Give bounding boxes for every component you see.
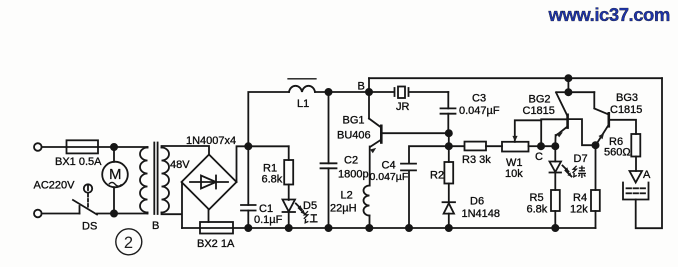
resistor R6 — [631, 134, 640, 157]
svg-text:C1815: C1815 — [610, 104, 642, 116]
wire cup to right edge — [636, 78, 662, 228]
capacitor C3 — [447, 92, 449, 108]
capacitor C2 — [328, 92, 330, 163]
fuse BX2 — [200, 222, 233, 234]
motor M — [113, 147, 115, 162]
svg-text:D5: D5 — [303, 200, 317, 212]
inductor L1 — [289, 86, 315, 92]
transformer core — [153, 143, 155, 215]
svg-text:BG1: BG1 — [343, 115, 365, 127]
wire B riser to top rail — [368, 78, 370, 92]
svg-text:B: B — [358, 81, 365, 93]
svg-text:6.8k: 6.8k — [527, 203, 548, 215]
node B — [366, 89, 372, 95]
svg-text:C1815: C1815 — [523, 105, 555, 117]
wire bridge bottom — [208, 210, 210, 223]
wire riser to L1 — [248, 92, 289, 146]
svg-text:D6: D6 — [470, 196, 484, 208]
wire AC top — [42, 146, 67, 148]
wire secondary bottom to bridge — [162, 183, 183, 229]
node junction top-left — [111, 144, 117, 150]
node junction bottom-left — [111, 210, 117, 216]
svg-text:1N4148: 1N4148 — [462, 208, 501, 220]
svg-text:BX2 1A: BX2 1A — [197, 238, 235, 250]
node DC+ — [245, 143, 251, 149]
node L1-C2 — [325, 89, 331, 95]
fuse BX1 — [67, 140, 99, 153]
svg-text:22µH: 22µH — [330, 203, 357, 215]
transformer B primary — [140, 148, 147, 213]
resistor R4 — [595, 145, 597, 190]
transistor BG3 — [568, 91, 594, 93]
svg-text:www.ic37.com: www.ic37.com — [548, 4, 670, 25]
terminal top-left — [34, 143, 42, 151]
wire top rail — [369, 77, 662, 79]
svg-text:2: 2 — [124, 234, 133, 252]
inductor L2 — [364, 186, 370, 216]
label red char — [304, 211, 318, 223]
svg-text:6.8k: 6.8k — [262, 174, 283, 186]
svg-text:10k: 10k — [505, 168, 523, 180]
terminal bottom-left — [34, 210, 42, 218]
svg-text:M: M — [109, 166, 122, 183]
svg-text:1800p: 1800p — [338, 169, 369, 181]
potentiometer W1 — [502, 142, 529, 152]
svg-text:R2: R2 — [430, 170, 444, 182]
resistor R3 — [449, 145, 464, 147]
wire secondary top to bridge — [162, 146, 210, 155]
wire BG2 base to R4 node — [569, 119, 596, 145]
bridge diode — [190, 181, 228, 183]
svg-text:B: B — [152, 220, 159, 232]
transistor BG2 — [566, 115, 569, 128]
svg-text:48V: 48V — [170, 159, 190, 171]
capacitor C4 — [409, 146, 449, 163]
resistor R1 — [248, 145, 288, 147]
svg-text:BU406: BU406 — [337, 130, 371, 142]
probe arrow A — [630, 171, 643, 183]
svg-text:L1: L1 — [297, 98, 309, 110]
svg-text:0.047µF: 0.047µF — [459, 105, 500, 117]
resistor R5 — [554, 173, 556, 191]
svg-text:JR: JR — [396, 101, 410, 113]
svg-text:C3: C3 — [472, 93, 486, 105]
svg-text:AC220V: AC220V — [34, 179, 76, 191]
wire BG3 base to R6 — [610, 120, 636, 134]
transistor BG1 — [368, 92, 370, 119]
svg-text:BG2: BG2 — [529, 94, 551, 106]
diode D6 — [443, 201, 456, 203]
svg-text:L2: L2 — [341, 190, 353, 202]
resistor R2 — [448, 146, 450, 162]
svg-text:1N4007x4: 1N4007x4 — [186, 135, 236, 147]
wire BG2 collector riser — [567, 78, 569, 92]
probe cup — [623, 183, 649, 200]
transducer JR — [369, 91, 393, 93]
wire bridge + output — [237, 146, 249, 182]
thermostat bulb — [84, 184, 92, 192]
svg-text:560Ω: 560Ω — [604, 147, 631, 159]
svg-text:C2: C2 — [344, 155, 358, 167]
capacitor C1 — [247, 146, 249, 205]
node base BG1 — [446, 130, 452, 136]
LED D5 — [283, 200, 296, 212]
LED D7 — [554, 146, 556, 161]
svg-text:D7: D7 — [574, 153, 588, 165]
svg-text:C: C — [535, 151, 543, 163]
svg-text:0.047µF: 0.047µF — [370, 171, 409, 183]
svg-text:C4: C4 — [382, 160, 396, 172]
svg-text:R4: R4 — [573, 192, 587, 204]
svg-text:DS: DS — [82, 221, 97, 233]
svg-text:12k: 12k — [570, 203, 588, 215]
transformer secondary — [162, 148, 170, 213]
switch DS — [79, 206, 81, 214]
circled 2 — [116, 229, 142, 255]
wire bottom rail — [182, 227, 596, 229]
svg-text:R5: R5 — [530, 192, 544, 204]
wire C riser to BG2 base — [541, 119, 566, 146]
svg-text:A: A — [643, 169, 651, 181]
label green char — [573, 166, 586, 178]
svg-text:BG3: BG3 — [616, 92, 638, 104]
svg-text:0.1µF: 0.1µF — [254, 214, 283, 226]
svg-text:BX1 0.5A: BX1 0.5A — [55, 156, 102, 168]
wire AC bottom — [42, 213, 80, 215]
bridge rectifier 1N4007x4 — [182, 155, 237, 210]
svg-text:R3 3k: R3 3k — [462, 154, 491, 166]
node C — [538, 143, 544, 149]
